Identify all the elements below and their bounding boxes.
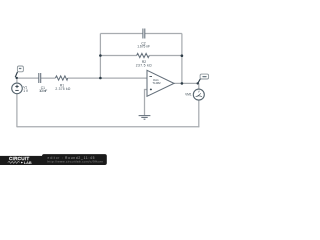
wire bbox=[17, 77, 39, 79]
watermark logo LAB bbox=[21, 161, 32, 165]
svg-text:V: V bbox=[198, 89, 200, 93]
capacitor C1 bbox=[39, 73, 41, 83]
svg-text:237.5 kΩ: 237.5 kΩ bbox=[136, 63, 152, 67]
wire bbox=[100, 55, 136, 57]
wire bbox=[174, 82, 199, 84]
watermark text line1 bbox=[48, 156, 95, 160]
svg-text:http://www.circuitlab.com/c/9f: http://www.circuitlab.com/c/9fkurn bbox=[48, 160, 104, 164]
wire bbox=[181, 34, 183, 84]
wire bbox=[100, 33, 142, 35]
node junction dots bbox=[16, 77, 18, 79]
svg-text:100 nF: 100 nF bbox=[39, 89, 47, 93]
watermark logo zigzag bbox=[8, 161, 20, 163]
op-amp OA1 bbox=[147, 70, 174, 96]
resistor R1 bbox=[55, 76, 67, 80]
ground bbox=[139, 116, 151, 120]
svg-text:1.675 nF: 1.675 nF bbox=[137, 45, 150, 49]
wire bbox=[68, 77, 147, 79]
svg-text:TL082: TL082 bbox=[152, 81, 161, 85]
svg-text:VM1: VM1 bbox=[185, 92, 192, 96]
wire bbox=[41, 77, 56, 79]
resistor R2 bbox=[137, 53, 150, 57]
svg-text:2.375 kΩ: 2.375 kΩ bbox=[55, 87, 71, 91]
capacitor C2 bbox=[143, 29, 145, 39]
voltmeter VM1 bbox=[193, 89, 204, 100]
wire bbox=[145, 33, 182, 35]
watermark logo CIRCUIT bbox=[9, 156, 29, 161]
svg-text:LAB: LAB bbox=[24, 161, 32, 165]
node out tag bbox=[198, 74, 209, 83]
wire bbox=[149, 55, 182, 57]
wire bbox=[16, 94, 18, 128]
wire bbox=[17, 126, 199, 128]
wire bbox=[16, 78, 18, 83]
watermark text line2 bbox=[48, 160, 104, 164]
wire bbox=[198, 100, 200, 127]
voltage source V1 bbox=[12, 83, 23, 94]
wire bbox=[145, 90, 148, 116]
wire bbox=[198, 83, 200, 89]
node in tag bbox=[15, 66, 23, 77]
wire bbox=[99, 34, 101, 79]
svg-text:1 V: 1 V bbox=[23, 89, 29, 93]
watermark bar bbox=[42, 154, 107, 165]
